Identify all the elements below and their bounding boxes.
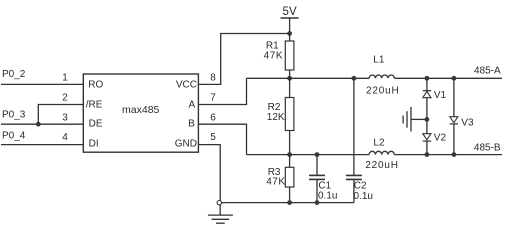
node P0_3 label	[2, 110, 26, 121]
R2 label	[268, 102, 281, 113]
wire A-rail	[247, 77, 370, 79]
V1 label	[434, 90, 447, 101]
svg-text:V1: V1	[434, 90, 447, 101]
node P0_4 label	[2, 131, 26, 142]
inductor L2 label	[373, 138, 385, 149]
svg-text:V3: V3	[461, 117, 474, 128]
resistor R1	[285, 34, 294, 79]
wire B-rail	[247, 154, 370, 156]
svg-text:L2: L2	[373, 138, 385, 149]
IC pin name /RE	[86, 99, 103, 110]
svg-text:VCC: VCC	[176, 80, 197, 91]
svg-text:max485: max485	[122, 104, 160, 116]
IC U1 name label	[122, 104, 160, 116]
junction dot B-rail/C1	[315, 152, 320, 157]
C2 label	[354, 180, 367, 191]
svg-text:P0_3: P0_3	[2, 110, 26, 121]
junction dot B-rail/R2/R3	[287, 152, 292, 157]
svg-text:P0_4: P0_4	[2, 131, 26, 142]
capacitor C2	[346, 78, 362, 202]
wire pin8 VCC to 5V	[198, 34, 289, 85]
pin 4 number	[62, 132, 68, 143]
svg-text:A: A	[189, 99, 196, 110]
L2 value 220uH	[365, 160, 398, 171]
IC pin name GND	[175, 138, 197, 149]
svg-text:C2: C2	[354, 180, 367, 191]
wire 5V stem	[289, 18, 291, 34]
C1 value 0.1u	[318, 191, 337, 202]
junction dot V1/A-rail	[425, 76, 430, 81]
resistor R2	[285, 78, 294, 154]
wire B-rail after L2	[394, 154, 502, 156]
wire pin6 B down to B-rail	[198, 124, 246, 154]
wire riser RE-DE tie	[38, 105, 83, 125]
wire ground rail	[222, 202, 354, 204]
junction dot V1/V2 mid node	[425, 117, 430, 122]
pin 2 number	[62, 93, 68, 104]
wire pin7 A up to A-rail	[198, 78, 246, 104]
V3 label	[461, 117, 474, 128]
svg-text:1: 1	[62, 73, 68, 84]
diode V2	[423, 119, 432, 154]
wire P0_3 to pin3	[1, 123, 83, 125]
svg-text:DE: DE	[89, 119, 103, 130]
svg-text:B: B	[188, 119, 195, 130]
svg-text:7: 7	[210, 93, 216, 104]
IC U1 max485 body	[83, 74, 198, 152]
IC pin name A	[189, 99, 196, 110]
junction dot P0_3/RE tie	[36, 122, 41, 127]
inductor L2	[369, 151, 394, 154]
junction dot 5V node	[287, 31, 292, 36]
svg-text:12K: 12K	[267, 112, 285, 123]
terminal circle at ground junction	[217, 201, 221, 205]
svg-text:0.1u: 0.1u	[318, 191, 337, 202]
node 485-A label	[474, 65, 501, 76]
R3 value 47K	[266, 177, 285, 188]
svg-text:220uH: 220uH	[365, 160, 398, 171]
svg-text:5V: 5V	[283, 6, 297, 18]
diode V3	[450, 78, 458, 154]
earth ground symbol at mid node	[403, 107, 425, 132]
svg-text:47K: 47K	[264, 50, 283, 61]
svg-text:6: 6	[210, 112, 216, 123]
junction dot V2/B-rail	[425, 152, 430, 157]
svg-text:/RE: /RE	[86, 99, 103, 110]
L1 value 220uH	[366, 86, 399, 97]
svg-text:485-B: 485-B	[474, 143, 501, 154]
pin 7 number	[210, 93, 216, 104]
svg-text:L1: L1	[373, 54, 385, 65]
svg-text:47K: 47K	[266, 177, 285, 188]
pin 8 number	[210, 73, 216, 84]
svg-text:3: 3	[62, 112, 68, 123]
junction dot C1/ground rail	[315, 200, 320, 205]
junction dot V3/A-rail	[452, 76, 457, 81]
R2 value 12K	[267, 112, 285, 123]
svg-text:DI: DI	[89, 138, 99, 149]
inductor L1	[369, 75, 394, 78]
svg-text:4: 4	[62, 132, 68, 143]
node P0_2 label	[2, 69, 26, 80]
power 5V label	[283, 6, 297, 18]
ground symbol	[208, 205, 233, 223]
svg-text:P0_2: P0_2	[2, 69, 26, 80]
wire pin5 GND down	[198, 145, 220, 201]
svg-text:220uH: 220uH	[366, 86, 399, 97]
R3 label	[268, 167, 281, 178]
diode V1	[423, 78, 432, 119]
IC pin name DE	[89, 119, 103, 130]
wire P0_2 to pin1	[1, 83, 83, 85]
junction dot A-rail/C2	[352, 76, 357, 81]
IC pin name RO	[88, 80, 103, 91]
pin 6 number	[210, 112, 216, 123]
svg-text:5: 5	[210, 132, 216, 143]
inductor L1 label	[373, 54, 385, 65]
junction dot V3/B-rail	[452, 152, 457, 157]
IC pin name VCC	[176, 80, 197, 91]
wire A-rail after L1	[394, 77, 502, 79]
svg-text:8: 8	[210, 73, 216, 84]
capacitor C1	[309, 155, 325, 203]
IC pin name DI	[89, 138, 99, 149]
resistor R3	[285, 155, 294, 203]
pin 1 number	[62, 73, 68, 84]
wire P0_4 to pin4	[1, 144, 83, 146]
svg-text:485-A: 485-A	[474, 65, 501, 76]
svg-text:V2: V2	[434, 133, 447, 144]
svg-text:0.1u: 0.1u	[354, 191, 373, 202]
power 5V bar	[281, 17, 299, 19]
svg-text:RO: RO	[88, 80, 103, 91]
junction dot R3/ground rail	[287, 200, 292, 205]
junction dot A-rail/R1/R2	[287, 76, 292, 81]
pin 3 number	[62, 112, 68, 123]
R1 label	[266, 40, 279, 51]
R1 value 47K	[264, 50, 283, 61]
C2 value 0.1u	[354, 191, 373, 202]
pin 5 number	[210, 132, 216, 143]
V2 label	[434, 133, 447, 144]
node 485-B label	[474, 143, 501, 154]
IC pin name B	[188, 119, 195, 130]
svg-text:2: 2	[62, 93, 68, 104]
C1 label	[318, 180, 331, 191]
svg-text:GND: GND	[175, 138, 197, 149]
